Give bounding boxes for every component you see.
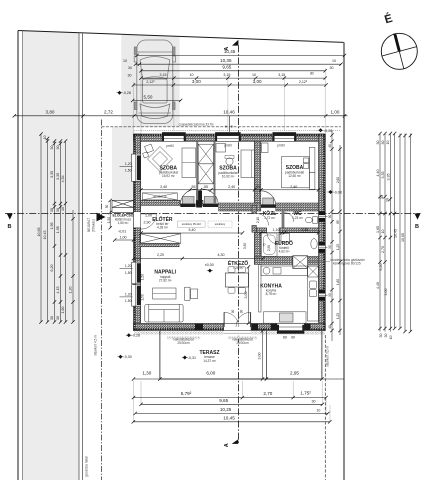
top dim row1 10,45: [137, 54, 345, 56]
plaster dotted line top: [134, 129, 341, 131]
svg-text:1,20: 1,20: [125, 162, 132, 166]
svg-text:±0,00: ±0,00: [205, 263, 214, 267]
window W3 nappali lower: [132, 285, 141, 307]
room1 radiator: [142, 193, 177, 200]
svg-text:30: 30: [56, 208, 60, 212]
svg-text:85: 85: [336, 220, 340, 224]
svg-text:6,20: 6,20: [50, 265, 54, 272]
svg-text:4,54: 4,54: [61, 175, 65, 182]
svg-text:-0,08: -0,08: [334, 191, 342, 195]
setback dashdot line west: [101, 120, 103, 480]
svg-text:1,75²: 1,75²: [300, 391, 311, 396]
svg-text:30: 30: [379, 334, 383, 338]
house north wall: [134, 134, 326, 141]
plot boundary top line: [18, 31, 344, 43]
level marker 0,00: [207, 269, 213, 273]
svg-text:3,35: 3,35: [56, 173, 60, 180]
road east line inner: [78, 33, 80, 480]
bath south wall: [254, 256, 318, 264]
dining table: [225, 273, 248, 287]
svg-text:10,45: 10,45: [43, 231, 47, 240]
svg-text:30: 30: [330, 66, 334, 70]
svg-text:2,40: 2,40: [160, 185, 167, 189]
svg-text:,55: ,55: [255, 185, 260, 189]
svg-text:10,65: 10,65: [401, 233, 405, 242]
svg-text:6,00: 6,00: [206, 370, 215, 375]
bath dims 1,10 1,95: [261, 232, 319, 234]
svg-text:(fő'lakás): (fő'lakás): [92, 219, 96, 232]
bottom terrace dim: [134, 378, 345, 380]
stipple strip below south wall: [134, 331, 325, 335]
svg-text:-0,28: -0,28: [132, 334, 140, 338]
svg-text:-0,30: -0,30: [124, 355, 132, 359]
svg-text:,55: ,55: [191, 185, 196, 189]
level marker -0,08: [328, 190, 334, 194]
svg-text:1,10: 1,10: [273, 228, 280, 232]
svg-text:10,45: 10,45: [223, 416, 235, 421]
closet box 2: [198, 164, 213, 184]
svg-text:1,20: 1,20: [125, 264, 132, 268]
svg-text:1,60 m²: 1,60 m²: [118, 221, 129, 225]
svg-text:B: B: [225, 125, 227, 129]
svg-text:10,25: 10,25: [220, 407, 232, 412]
terrace height dim: [262, 331, 264, 379]
hall-kozl wall: [252, 205, 257, 213]
level marker -0,30: [118, 355, 124, 359]
section A marker top: [232, 40, 238, 46]
window E1 wc: [319, 211, 328, 221]
room2 table: [216, 144, 226, 153]
terrace door threshold gap: [224, 331, 251, 336]
svg-text:10: 10: [61, 207, 65, 211]
svg-text:1,95: 1,95: [301, 228, 308, 232]
svg-text:4,28 m²: 4,28 m²: [157, 225, 168, 229]
bottom dim row3: [135, 412, 328, 414]
svg-text:25/30cm: 25/30cm: [236, 341, 249, 345]
svg-text:25/30cm: 25/30cm: [177, 341, 190, 345]
svg-text:1,50: 1,50: [141, 294, 145, 300]
kitchen sink: [309, 281, 316, 289]
svg-text:pm90: pm90: [224, 144, 232, 148]
road strip fill: [22, 31, 79, 480]
svg-text:4,62 m²: 4,62 m²: [279, 250, 290, 254]
kitchen counter top: [261, 266, 308, 276]
svg-text:10: 10: [389, 336, 393, 340]
svg-text:1,95: 1,95: [56, 226, 60, 233]
svg-text:1,25: 1,25: [336, 313, 340, 319]
svg-text:csapadekcsatorna 33 fm: csapadekcsatorna 33 fm: [179, 123, 214, 127]
bottom dim row2: [141, 403, 322, 405]
svg-text:30: 30: [376, 141, 380, 145]
room1 diagonal bed: [143, 144, 173, 172]
svg-text:3,35: 3,35: [381, 172, 385, 179]
svg-text:30: 30: [310, 72, 314, 76]
svg-text:40: 40: [328, 325, 332, 329]
svg-text:,55: ,55: [203, 185, 208, 189]
svg-text:alu 250/110: alu 250/110: [153, 196, 166, 199]
window N1: [162, 132, 186, 141]
svg-text:60: 60: [283, 336, 287, 340]
svg-text:30: 30: [50, 146, 54, 150]
svg-text:1,23 m²: 1,23 m²: [292, 216, 303, 220]
side yard dashed line east: [324, 335, 326, 480]
kitchen window S: [277, 323, 304, 333]
svg-text:-0,01: -0,01: [118, 229, 126, 233]
svg-text:30: 30: [384, 334, 388, 338]
svg-text:3,30: 3,30: [243, 243, 247, 249]
east house dim line1: [331, 130, 333, 341]
svg-text:2,12²: 2,12²: [146, 80, 155, 84]
entry door swing: [141, 214, 156, 229]
svg-text:4,40: 4,40: [376, 170, 380, 177]
partition mid-right rooms: [254, 141, 260, 203]
stove: [280, 313, 294, 322]
svg-text:2,70: 2,70: [381, 246, 385, 253]
svg-text:2,20: 2,20: [157, 253, 164, 257]
window axis mark: [229, 116, 231, 132]
svg-text:4,15: 4,15: [56, 287, 60, 294]
window N2: [215, 132, 241, 141]
svg-text:10: 10: [43, 136, 47, 140]
top dim row5: [134, 84, 327, 86]
window E3 kitchen: [319, 290, 328, 301]
svg-text:30: 30: [56, 316, 60, 320]
kitchen bottom counter: [264, 312, 307, 323]
entry door leaf: [141, 213, 156, 215]
level marker -0,31 terrace: [182, 356, 188, 360]
closet box 1: [198, 144, 213, 164]
driveway gray: [121, 34, 179, 127]
bedroom south wall left: [141, 200, 180, 205]
svg-text:geodézia határ: geodézia határ: [85, 455, 89, 477]
svg-text:1,65: 1,65: [376, 226, 380, 233]
room labels: [113, 165, 305, 363]
terrace door opening: [224, 323, 251, 330]
svg-text:10,65: 10,65: [37, 228, 41, 237]
door mullion dark: [196, 191, 202, 208]
svg-text:-0,31: -0,31: [188, 356, 196, 360]
entry small dims: [109, 200, 111, 227]
svg-text:6,20: 6,20: [379, 264, 383, 271]
window W2 nappali upper: [132, 262, 141, 284]
svg-text:4,30: 4,30: [218, 253, 225, 257]
svg-text:8,75 m²: 8,75 m²: [266, 292, 277, 296]
svg-text:2,12²: 2,12²: [299, 80, 308, 84]
coffee table: [153, 288, 176, 299]
svg-text:1,50: 1,50: [125, 169, 132, 173]
svg-text:10: 10: [386, 141, 390, 145]
svg-text:1,50: 1,50: [125, 299, 132, 303]
door1 swing: [180, 189, 196, 205]
svg-text:90: 90: [328, 245, 332, 249]
road west line outer: [17, 31, 19, 480]
top dim row4 windows: [141, 77, 325, 79]
svg-text:3,00: 3,00: [192, 79, 201, 84]
svg-text:5,50: 5,50: [144, 94, 153, 99]
svg-text:90: 90: [328, 293, 332, 297]
svg-text:10,92 m²: 10,92 m²: [222, 175, 235, 179]
svg-text:10: 10: [385, 198, 389, 202]
eaves dashed line top: [102, 126, 342, 128]
section B marker right: [415, 214, 421, 220]
house south wall: [134, 323, 326, 330]
terrace stipple strips: [167, 336, 201, 339]
svg-text:90: 90: [231, 310, 235, 314]
svg-text:3,00: 3,00: [384, 289, 388, 296]
svg-text:5,40: 5,40: [189, 228, 196, 232]
bath door swing: [267, 232, 279, 244]
top dim row3 9,65: [141, 70, 325, 72]
top dim row6: [14, 115, 347, 117]
svg-text:30: 30: [50, 316, 54, 320]
svg-text:BEJÁRAT: BEJÁRAT: [87, 218, 91, 232]
door3 panel: [263, 198, 274, 205]
etkezo height dim: [248, 267, 250, 323]
svg-text:B: B: [8, 224, 12, 230]
chairs: [228, 267, 246, 293]
svg-text:1,60: 1,60: [336, 279, 340, 285]
car dim 5,50: [133, 99, 181, 101]
bedroom south wall right: [219, 203, 261, 211]
svg-text:2,95: 2,95: [290, 370, 299, 375]
svg-text:1,20: 1,20: [125, 292, 132, 296]
svg-text:14,37 m²: 14,37 m²: [203, 359, 216, 363]
svg-text:4,40: 4,40: [376, 282, 380, 289]
svg-text:30: 30: [128, 73, 132, 77]
svg-text:3,80: 3,80: [46, 109, 55, 114]
top dim row2 10,35: [136, 63, 342, 65]
bath west wall: [254, 232, 260, 264]
svg-text:1,80: 1,80: [61, 307, 65, 314]
nappali width dims: [134, 258, 264, 260]
svg-text:30: 30: [50, 208, 54, 212]
svg-text:30: 30: [312, 399, 316, 403]
entry steps box: [112, 200, 134, 212]
entry door opening: [134, 212, 141, 228]
svg-text:10: 10: [332, 59, 336, 63]
window N3: [273, 132, 297, 141]
window E2 bath: [319, 242, 328, 253]
wc door swing: [285, 213, 294, 222]
svg-text:szekrény: szekrény: [215, 222, 226, 226]
svg-text:szekrény 05-110: szekrény 05-110: [182, 222, 202, 226]
svg-text:12,60 m²: 12,60 m²: [288, 174, 301, 178]
interior room width dims: [141, 189, 319, 191]
kitchen counter right: [308, 266, 319, 321]
svg-text:10,35: 10,35: [220, 58, 232, 63]
terrace door left leaf: [223, 312, 225, 327]
svg-text:1,95: 1,95: [50, 223, 54, 230]
svg-text:2,72: 2,72: [104, 109, 113, 114]
door2 panel: [204, 197, 216, 206]
section A marker bottom: [232, 439, 239, 444]
small rot dims: [105, 205, 271, 314]
svg-text:1,50: 1,50: [141, 274, 145, 280]
bath wm: [281, 234, 290, 243]
east house dim line2: [339, 145, 341, 335]
kitchen low wall: [259, 264, 261, 312]
top dim extension lines: [134, 68, 326, 134]
hall width dim 5,40: [141, 232, 243, 234]
insulation strips on outer faces: [134, 134, 326, 331]
door1 panel: [182, 197, 194, 206]
west window sill dims bedroom: [120, 162, 133, 303]
svg-text:90: 90: [239, 310, 243, 314]
chimney: [293, 256, 308, 268]
wc toilet: [305, 217, 317, 224]
room3 side column: [309, 147, 315, 172]
road west line inner: [21, 31, 23, 480]
bottom dim row4: [133, 421, 329, 423]
car: [134, 40, 175, 124]
bath tub: [262, 233, 278, 256]
svg-text:B: B: [415, 224, 419, 230]
svg-text:2,90: 2,90: [144, 221, 151, 225]
svg-text:9,65: 9,65: [219, 398, 228, 403]
svg-text:10,45: 10,45: [224, 49, 236, 54]
svg-text:3,35: 3,35: [387, 174, 391, 181]
svg-text:3,00: 3,00: [257, 353, 261, 360]
svg-text:2,40: 2,40: [290, 185, 297, 189]
svg-text:10: 10: [381, 230, 385, 234]
section line B: [5, 213, 421, 215]
level marker -0,28 house ne: [318, 128, 324, 132]
ghost box 1: [178, 221, 206, 227]
door2 swing: [203, 189, 219, 205]
svg-text:10: 10: [252, 73, 256, 77]
svg-text:pm90: pm90: [166, 144, 174, 148]
house east wall: [319, 134, 326, 331]
svg-text:A: A: [224, 443, 230, 447]
svg-text:1,72 m²: 1,72 m²: [264, 216, 275, 220]
svg-text:2,60: 2,60: [336, 177, 340, 183]
svg-text:2,50: 2,50: [267, 245, 271, 251]
bath basin: [311, 239, 317, 249]
svg-text:90: 90: [328, 215, 332, 219]
plot boundary east line: [343, 42, 345, 480]
kozl-wc wall: [282, 211, 285, 228]
svg-text:3,35: 3,35: [50, 171, 54, 178]
door3 swing: [261, 191, 276, 206]
svg-text:1,30: 1,30: [142, 370, 151, 375]
svg-text:kéményével 80/125: kéményével 80/125: [333, 262, 361, 266]
kitchen fridge: [308, 266, 319, 277]
svg-text:1,00: 1,00: [331, 109, 340, 114]
svg-text:3,15: 3,15: [278, 73, 285, 77]
svg-text:2,40: 2,40: [228, 185, 235, 189]
closet niche wall: [214, 141, 216, 203]
terrace door right leaf: [250, 312, 252, 327]
svg-text:30: 30: [381, 141, 385, 145]
svg-text:30: 30: [56, 146, 60, 150]
svg-text:1,00: 1,00: [145, 214, 152, 218]
road east line outer: [82, 33, 84, 480]
room3 bed: [281, 157, 309, 188]
kozl door swing: [257, 214, 269, 226]
level marker -0,28 driveway: [117, 91, 123, 95]
svg-text:1,25: 1,25: [336, 244, 340, 250]
room1 desk: [182, 148, 196, 178]
partition room1 east: [196, 141, 198, 200]
terrace outline: [160, 331, 322, 379]
svg-text:10,46: 10,46: [223, 110, 235, 115]
chimney leader + text: [308, 261, 330, 263]
svg-text:1,20: 1,20: [69, 287, 73, 294]
svg-text:oldalkert 4,5 m: oldalkert 4,5 m: [94, 335, 98, 356]
entrance arrow: [97, 213, 106, 222]
svg-text:10,45: 10,45: [394, 229, 398, 238]
svg-text:2,10: 2,10: [256, 217, 260, 223]
house west wall: [134, 134, 141, 331]
bottom dim extension lines: [134, 381, 331, 422]
svg-text:3,00: 3,00: [244, 292, 248, 299]
svg-text:oldalkert 3,0 m: oldalkert 3,0 m: [326, 346, 330, 367]
svg-text:pm90: pm90: [277, 144, 285, 148]
svg-text:30: 30: [380, 195, 384, 199]
bath north wall: [257, 228, 267, 232]
svg-text:16,92 m²: 16,92 m²: [162, 174, 175, 178]
svg-text:-0,28: -0,28: [123, 91, 131, 95]
svg-text:1,00: 1,00: [120, 235, 127, 239]
room2 bed: [241, 150, 254, 178]
room2 chair: [226, 158, 233, 165]
svg-text:90: 90: [291, 336, 295, 340]
window W1 bedroom: [132, 154, 141, 181]
svg-text:3,00: 3,00: [253, 79, 262, 84]
svg-text:10: 10: [123, 59, 127, 63]
svg-text:1,50: 1,50: [125, 271, 132, 275]
svg-text:50: 50: [105, 205, 109, 209]
sofa: [145, 304, 183, 322]
svg-text:2,70: 2,70: [263, 391, 272, 396]
eaves gray band left of house: [112, 127, 134, 201]
svg-text:30: 30: [128, 66, 132, 70]
svg-text:3,15: 3,15: [160, 73, 167, 77]
ghost box 2: [208, 221, 232, 227]
tv unit: [185, 287, 190, 300]
south wall jamb blocks: [195, 324, 203, 330]
level marker -0,28 house sw: [126, 333, 132, 337]
north compass: [381, 12, 417, 70]
svg-text:3,15: 3,15: [223, 73, 230, 77]
svg-text:5,79²: 5,79²: [181, 391, 192, 396]
svg-text:7,28 m²: 7,28 m²: [233, 266, 244, 270]
bottom dim row1: [134, 397, 327, 399]
section line A: [237, 45, 239, 443]
svg-text:10: 10: [190, 73, 194, 77]
entry wardrobe: [140, 234, 181, 247]
svg-text:27,82 m²: 27,82 m²: [159, 279, 172, 283]
svg-text:40: 40: [328, 144, 332, 148]
svg-text:B: B: [231, 125, 233, 129]
room3 dresser: [262, 143, 269, 153]
terrace right edge inner: [265, 331, 267, 379]
section B marker left: [7, 214, 13, 220]
svg-text:9,65: 9,65: [222, 65, 231, 70]
left chains: [41, 134, 73, 322]
svg-text:10: 10: [316, 408, 320, 412]
right chains: [380, 134, 410, 332]
